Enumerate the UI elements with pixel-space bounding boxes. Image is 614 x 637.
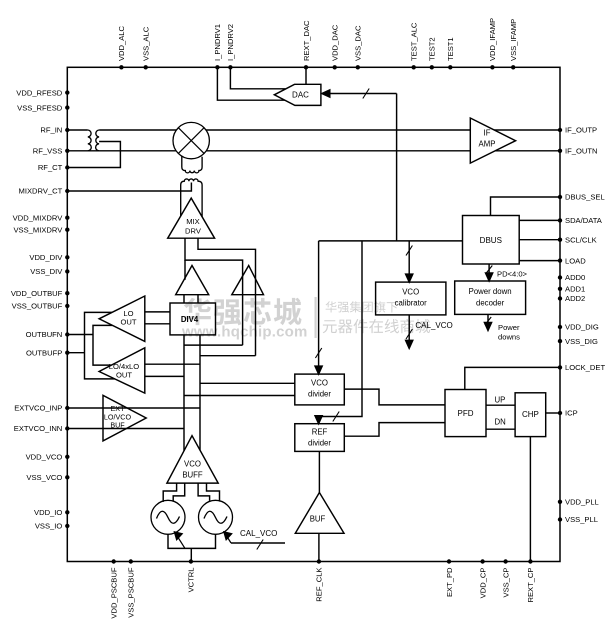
- pin I_PNDRV1: [215, 65, 219, 69]
- wire PD<4:0>: [488, 264, 490, 274]
- pin RF_VSS: [65, 149, 69, 153]
- chip boundary: [67, 67, 560, 561]
- pin VDD_DIV: [65, 255, 69, 259]
- wire VCO divider to PFD: [344, 389, 445, 405]
- svg-text:decoder: decoder: [476, 299, 505, 308]
- svg-text:VSS_PLL: VSS_PLL: [565, 515, 598, 524]
- wire secondary top to mixer and IF amp (IF_OUTP line): [99, 129, 560, 131]
- pin VDD_ALC: [119, 65, 123, 69]
- wire LO/4xLO input lower: [145, 375, 184, 377]
- svg-text:IF: IF: [484, 128, 491, 137]
- svg-text:DBUS: DBUS: [480, 236, 502, 245]
- pin REXT_CP: [528, 559, 532, 563]
- svg-text:TEST1: TEST1: [446, 37, 455, 61]
- svg-text:EXT_PD: EXT_PD: [445, 567, 454, 597]
- wire LOAD: [519, 260, 560, 262]
- MIX DRV output winding (lower coil): [181, 179, 202, 217]
- pin VDD_CP: [480, 559, 484, 563]
- svg-text:downs: downs: [498, 333, 520, 342]
- pin RF_CT: [65, 165, 69, 169]
- svg-text:REXT_DAC: REXT_DAC: [302, 20, 311, 61]
- svg-text:UP: UP: [495, 395, 506, 404]
- oscillator VCO core right: [199, 500, 233, 534]
- tuning arrow right osc: [226, 535, 231, 543]
- pin VSS_DIG: [558, 339, 562, 343]
- wire DAC control input (bus): [329, 93, 397, 95]
- wire CAL_VCO output: [408, 315, 410, 341]
- svg-text:RF_VSS: RF_VSS: [33, 147, 63, 156]
- wire DAC bus vertical: [396, 94, 398, 241]
- wire OUTBUFN: [67, 334, 93, 336]
- watermark: [181, 297, 430, 341]
- svg-text:VDD_CP: VDD_CP: [478, 568, 487, 599]
- DIV4 block: [170, 303, 216, 335]
- wire VCTRL: [190, 548, 192, 561]
- pin TEST_ALC: [412, 65, 416, 69]
- REF divider block: [295, 424, 345, 452]
- wire LO OUT input lower: [145, 323, 170, 325]
- wire DN: [486, 428, 515, 430]
- wire I_PNDRV1 to DAC output lower: [217, 67, 285, 100]
- svg-text:VDD_IO: VDD_IO: [34, 508, 62, 517]
- svg-text:VDD_DIV: VDD_DIV: [29, 253, 63, 262]
- pin OUTBUFN: [65, 332, 69, 336]
- svg-text:ADD1: ADD1: [565, 285, 585, 294]
- pin VSS_CP: [503, 559, 507, 563]
- pin VSS_DIV: [65, 269, 69, 273]
- pin LOAD: [558, 258, 562, 262]
- svg-text:ICP: ICP: [565, 409, 578, 418]
- wire VCO BUFF to osc stubs: [163, 483, 176, 502]
- op-amp LO buffer B (right): [232, 266, 264, 295]
- svg-text:VDD_VCO: VDD_VCO: [26, 453, 63, 462]
- pin EXT_PD: [447, 559, 451, 563]
- wire SDA/DATA: [519, 219, 560, 221]
- wire OUTBUFN bracket: [93, 325, 112, 365]
- wire VCO divider input lower from LO bus: [184, 395, 295, 397]
- wire EXTVCO_INN: [67, 428, 184, 430]
- svg-text:VDD_IFAMP: VDD_IFAMP: [488, 18, 497, 61]
- op-amp IF AMP: [470, 118, 515, 163]
- svg-text:BUF: BUF: [110, 421, 125, 430]
- svg-text:CHP: CHP: [522, 410, 539, 419]
- svg-text:I_PNDRV2: I_PNDRV2: [226, 24, 235, 61]
- wire buffer A to DIV4 stubs: [183, 295, 185, 303]
- wire SCL/CLK: [519, 239, 560, 241]
- wire OUTBUFP: [67, 352, 84, 354]
- svg-text:VCO: VCO: [311, 379, 328, 388]
- pin VSS_IFAMP: [511, 65, 515, 69]
- pin DBUS_SEL: [558, 195, 562, 199]
- svg-text:VDD_MIXDRV: VDD_MIXDRV: [13, 213, 64, 222]
- svg-text:OUTBUFP: OUTBUFP: [26, 348, 62, 357]
- wire I_PNDRV2 to DAC output upper: [230, 67, 285, 89]
- svg-text:LOCK_DET: LOCK_DET: [565, 363, 605, 372]
- svg-text:DAC: DAC: [292, 91, 309, 100]
- wire MIX DRV input stub to left buffer: [184, 260, 186, 280]
- mixer (RF x LO): [173, 122, 209, 158]
- pin EXTVCO_INN: [65, 426, 69, 430]
- svg-text:calibrator: calibrator: [395, 299, 427, 308]
- transformer T1 primary coil: [88, 130, 91, 151]
- svg-text:SDA/DATA: SDA/DATA: [565, 216, 603, 225]
- svg-text:DIV4: DIV4: [181, 315, 199, 324]
- pin REXT_DAC: [304, 65, 308, 69]
- svg-text:VSS_DIV: VSS_DIV: [30, 267, 63, 276]
- pin VDD_RFESD: [65, 90, 69, 94]
- svg-text:TEST_ALC: TEST_ALC: [410, 22, 419, 61]
- pin VDD_IO: [65, 510, 69, 514]
- wire RF_VSS / IF line lower: full horizontal: [67, 150, 560, 152]
- svg-text:Power: Power: [498, 323, 520, 332]
- wire bus crosslink lower: [200, 355, 256, 357]
- svg-text:BUF: BUF: [310, 515, 326, 524]
- op-amp LO buffer A (left): [176, 266, 209, 295]
- svg-text:PD<4:0>: PD<4:0>: [497, 270, 528, 279]
- wire OUTBUFP bracket: [85, 312, 115, 379]
- pin SDA/DATA: [558, 218, 562, 222]
- tuning arrow left osc: [177, 535, 186, 548]
- wire REF_CLK: [318, 533, 320, 561]
- pin OUTBUFP: [65, 351, 69, 355]
- svg-text:TEST2: TEST2: [428, 37, 437, 61]
- svg-text:VSS_PSCBUF: VSS_PSCBUF: [127, 567, 136, 618]
- pin IF_OUTN: [558, 149, 562, 153]
- pin VSS_VCO: [65, 475, 69, 479]
- svg-text:VSS_CP: VSS_CP: [501, 568, 510, 598]
- DBUS block: [463, 216, 520, 265]
- svg-text:MIXDRV_CT: MIXDRV_CT: [19, 187, 63, 196]
- wire bus to REF divider: [319, 241, 362, 417]
- svg-text:VDD_PLL: VDD_PLL: [565, 498, 599, 507]
- svg-text:VSS_MIXDRV: VSS_MIXDRV: [13, 225, 63, 234]
- pin ADD2: [558, 296, 562, 300]
- pin VSS_PLL: [558, 517, 562, 521]
- op-amp MIX DRV: [168, 198, 215, 238]
- svg-text:LOAD: LOAD: [565, 256, 586, 265]
- pin VSS_MIXDRV: [65, 228, 69, 232]
- pin REF_CLK: [317, 559, 321, 563]
- svg-text:VSS_OUTBUF: VSS_OUTBUF: [12, 302, 63, 311]
- wire EXTVCO_INP: [67, 407, 200, 409]
- svg-text:OUT: OUT: [120, 318, 136, 327]
- svg-text:RF_IN: RF_IN: [40, 126, 62, 135]
- DAC U1: [274, 84, 321, 105]
- wire bus crosslink upper: [184, 344, 243, 346]
- pin ADD1: [558, 287, 562, 291]
- wire REF divider to PFD: [344, 423, 445, 437]
- wire LO OUT input upper: [145, 311, 170, 313]
- CHP block: [515, 393, 546, 437]
- transformer T1 secondary coil: [96, 130, 99, 151]
- svg-text:VSS_RFESD: VSS_RFESD: [17, 103, 63, 112]
- VCO divider block: [295, 374, 345, 405]
- wire UP: [486, 404, 515, 406]
- svg-text:VDD_DAC: VDD_DAC: [331, 24, 340, 61]
- pin SCL/CLK: [558, 238, 562, 242]
- svg-text:VSS_IO: VSS_IO: [35, 522, 63, 531]
- svg-text:ADD2: ADD2: [565, 294, 585, 303]
- wire VCO divider input upper from LO bus: [200, 382, 295, 384]
- pin EXTVCO_INP: [65, 406, 69, 410]
- pin VDD_OUTBUF: [65, 291, 69, 295]
- pin VSS_IO: [65, 524, 69, 528]
- svg-text:DRV: DRV: [185, 227, 202, 236]
- svg-text:VCO: VCO: [184, 460, 201, 469]
- PFD block: [445, 390, 486, 437]
- svg-text:SCL/CLK: SCL/CLK: [565, 235, 597, 244]
- pin LOCK_DET: [558, 365, 562, 369]
- svg-text:VSS_VCO: VSS_VCO: [26, 473, 62, 482]
- wire ICP: [546, 412, 560, 414]
- pin VDD_PLL: [558, 500, 562, 504]
- svg-text:VSS_ALC: VSS_ALC: [142, 26, 151, 61]
- svg-text:REF_CLK: REF_CLK: [315, 568, 324, 602]
- pin ADD0: [558, 275, 562, 279]
- wire MIXDRV_CT center tap: [67, 183, 191, 192]
- pin VDD_DAC: [333, 65, 337, 69]
- wire REXT_DAC into DAC top: [305, 67, 307, 84]
- pin ICP: [558, 411, 562, 415]
- wire power downs output: [487, 314, 489, 323]
- pin VDD_VCO: [65, 455, 69, 459]
- wire REF divider input from BUF: [318, 451, 320, 492]
- svg-text:CAL_VCO: CAL_VCO: [415, 321, 452, 330]
- svg-text:DBUS_SEL: DBUS_SEL: [565, 193, 605, 202]
- pin VSS_DAC: [356, 65, 360, 69]
- pin TEST2: [430, 65, 434, 69]
- svg-text:CAL_VCO: CAL_VCO: [240, 529, 277, 538]
- svg-text:VSS_DAC: VSS_DAC: [354, 25, 363, 61]
- svg-text:REXT_CP: REXT_CP: [526, 568, 535, 603]
- svg-text:EXTVCO_INN: EXTVCO_INN: [14, 424, 63, 433]
- wire LO/4xLO input upper: [145, 363, 200, 365]
- op-amp EXT LO/VCO BUF: [103, 395, 146, 441]
- wire MIX DRV input left: [185, 238, 243, 345]
- op-amp BUF (ref clock buffer): [295, 493, 344, 534]
- svg-text:VDD_OUTBUF: VDD_OUTBUF: [11, 289, 63, 298]
- svg-text:AMP: AMP: [479, 140, 496, 149]
- pin VDD_PSCBUF: [112, 559, 116, 563]
- pin VDD_MIXDRV: [65, 216, 69, 220]
- svg-text:PFD: PFD: [458, 409, 474, 418]
- wire CAL_VCO into VCO: [231, 542, 285, 544]
- pin VDD_IFAMP: [490, 65, 494, 69]
- svg-text:MIX: MIX: [186, 217, 200, 226]
- wire RF_CT center tap: [67, 142, 120, 168]
- pin VCTRL: [189, 559, 193, 563]
- pin I_PNDRV2: [228, 65, 232, 69]
- svg-text:ADD0: ADD0: [565, 273, 585, 282]
- pin VSS_ALC: [144, 65, 148, 69]
- svg-text:VDD_RFESD: VDD_RFESD: [16, 88, 63, 97]
- pin TEST1: [448, 65, 452, 69]
- wire LO bus left vertical: [183, 335, 185, 451]
- svg-text:EXTVCO_INP: EXTVCO_INP: [14, 404, 62, 413]
- wire bus to VCO calibrator: [408, 241, 410, 282]
- svg-text:VSS_IFAMP: VSS_IFAMP: [509, 19, 518, 61]
- svg-text:IF_OUTN: IF_OUTN: [565, 147, 598, 156]
- mixer LO winding (upper coil): [182, 157, 202, 173]
- pin VSS_OUTBUF: [65, 304, 69, 308]
- wire MIX DRV input right: [198, 238, 256, 356]
- pin VSS_PSCBUF: [129, 559, 133, 563]
- pin IF_OUTP: [558, 128, 562, 132]
- wire bus to VCO divider: [318, 241, 320, 367]
- oscillator VCO core left: [151, 500, 185, 534]
- wire control bus horizontal: [319, 240, 463, 242]
- wire DBUS_SEL: [491, 197, 561, 216]
- Power down decoder block: [455, 281, 526, 314]
- svg-text:VDD_ALC: VDD_ALC: [117, 25, 126, 61]
- svg-text:Power down: Power down: [469, 287, 512, 296]
- op-amp VCO BUFF: [167, 436, 218, 483]
- svg-text:REF: REF: [312, 428, 328, 437]
- svg-text:RF_CT: RF_CT: [38, 163, 63, 172]
- svg-text:BUFF: BUFF: [182, 471, 203, 480]
- svg-text:VSS_DIG: VSS_DIG: [565, 337, 598, 346]
- svg-text:VDD_DIG: VDD_DIG: [565, 323, 599, 332]
- pin MIXDRV_CT: [65, 189, 69, 193]
- svg-text:IF_OUTP: IF_OUTP: [565, 126, 597, 135]
- VCO calibrator block: [376, 282, 446, 315]
- wire LOCK_DET: [465, 367, 560, 389]
- pin VDD_DIG: [558, 325, 562, 329]
- svg-text:OUTBUFN: OUTBUFN: [26, 330, 63, 339]
- svg-text:DN: DN: [495, 418, 506, 427]
- svg-text:divider: divider: [308, 390, 331, 399]
- svg-text:VDD_PSCBUF: VDD_PSCBUF: [110, 567, 119, 618]
- svg-text:divider: divider: [308, 439, 331, 448]
- svg-text:VCO: VCO: [402, 288, 419, 297]
- svg-text:I_PNDRV1: I_PNDRV1: [213, 24, 222, 61]
- wire osc bottoms to VCTRL rail: [168, 534, 216, 548]
- wire CHP to REXT_CP: [529, 437, 531, 562]
- svg-text:VCTRL: VCTRL: [187, 568, 196, 593]
- pin VSS_RFESD: [65, 105, 69, 109]
- pin RF_IN: [65, 128, 69, 132]
- wire LO bus right vertical: [199, 335, 201, 450]
- wire RF_IN to transformer primary: [67, 129, 88, 131]
- op-amp LO OUT: [99, 296, 145, 341]
- op-amp LO/4xLO OUT: [99, 348, 145, 393]
- svg-text:OUT: OUT: [116, 371, 132, 380]
